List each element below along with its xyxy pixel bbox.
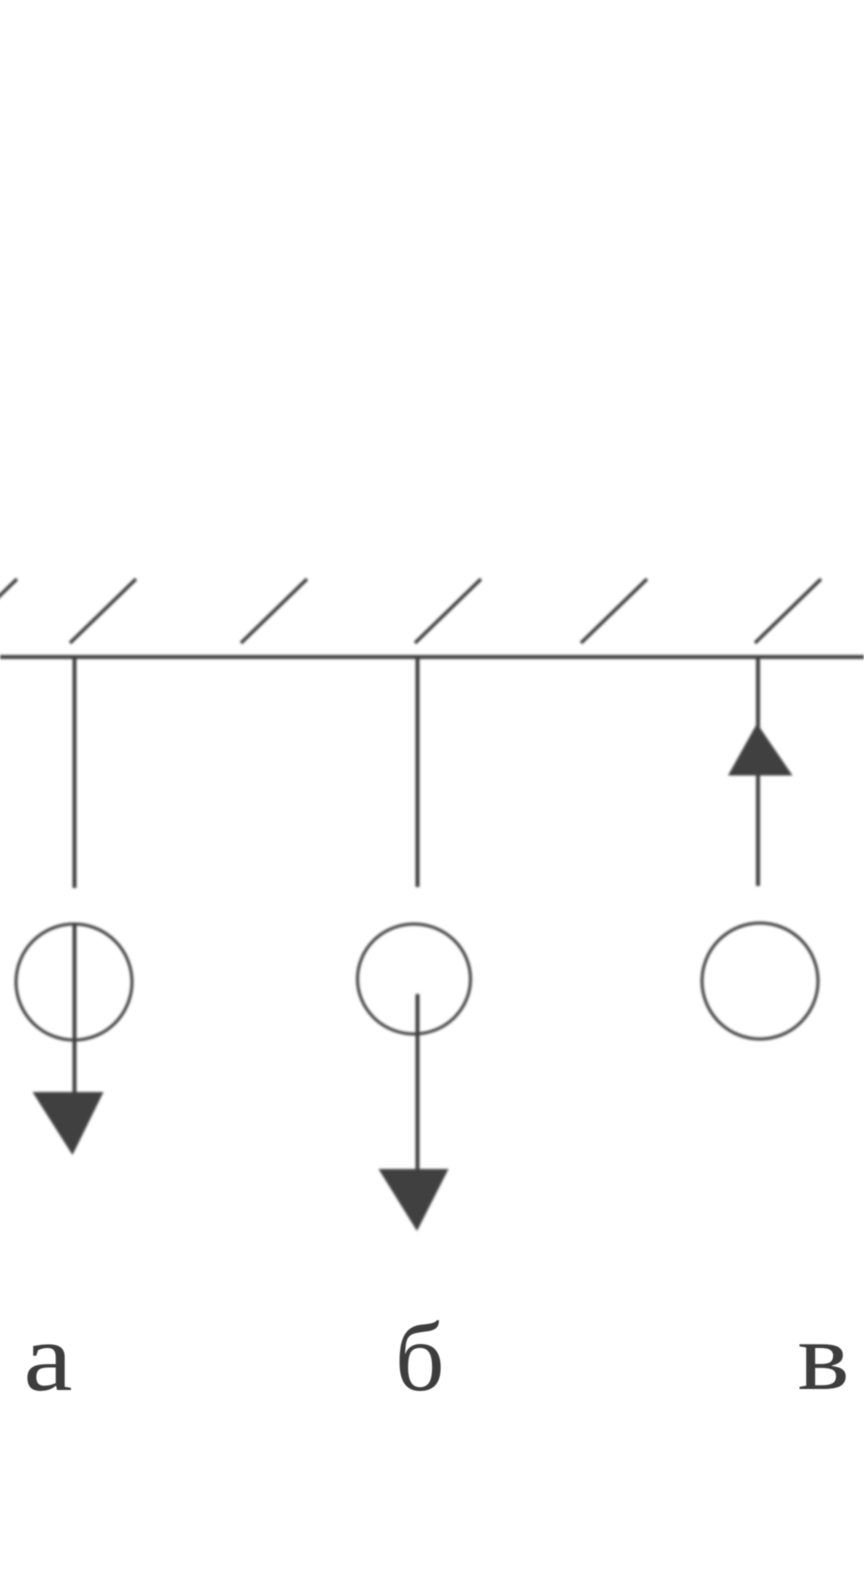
svg-text:в: в	[798, 1303, 850, 1410]
svg-text:б: б	[395, 1304, 444, 1411]
svg-text:а: а	[24, 1304, 73, 1411]
